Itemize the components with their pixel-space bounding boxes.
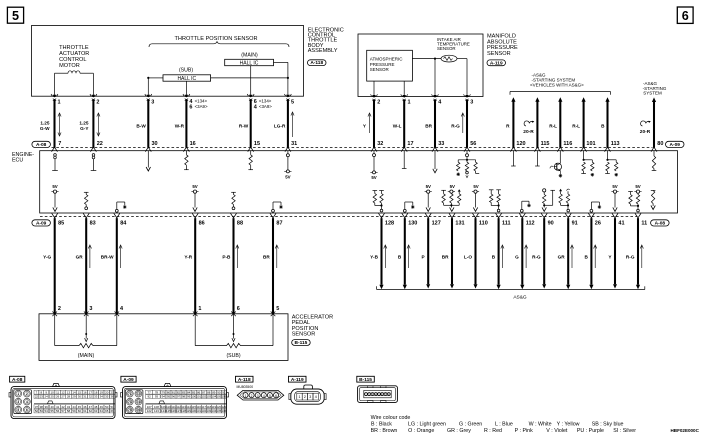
twisted pair arrow wire 1 — [58, 113, 61, 136]
svg-text:36: 36 — [111, 395, 115, 399]
ECU internal 5V source pin 110 — [472, 184, 479, 211]
svg-text:20-R: 20-R — [523, 129, 534, 135]
wire ECU pin 110 to AS&G — [474, 218, 478, 288]
wire AS&G 2 to ECU pin 115 — [535, 97, 539, 148]
svg-text:R : Red: R : Red — [484, 428, 502, 434]
shield arrow wire GR — [88, 245, 91, 268]
ECU internal resistor pin 88 — [231, 192, 236, 209]
svg-text:SENSOR: SENSOR — [292, 332, 316, 338]
wire main hall ic right to pin 5 — [274, 62, 288, 96]
ECU internal wire pin 33 arrow — [433, 151, 437, 173]
svg-text:15: 15 — [254, 141, 260, 147]
ECU bottom pin number 110 (A-08) — [479, 220, 488, 226]
pin mark throttle body pin 2 — [90, 94, 97, 101]
svg-text:6: 6 — [189, 105, 192, 111]
terminal mark at A-08 row wire 1 — [52, 147, 58, 152]
wire colour label R-L second — [572, 123, 580, 128]
pin mark MAP sensor pin 2 — [371, 94, 378, 101]
ECU internal resistor pair pin 113 — [605, 151, 618, 177]
connector boundary dashed line A-08/A-09 top — [52, 146, 653, 148]
wire ECU pin 128 to AS&G — [379, 218, 383, 289]
svg-text:HALL IC: HALL IC — [240, 60, 259, 66]
bracket vehicles with AS&G — [510, 92, 611, 95]
ECU bottom pin number 90 (A-08) — [548, 220, 554, 226]
terminal mark MAP wire 3 — [432, 147, 438, 152]
svg-text:Y-B: Y-B — [370, 255, 378, 260]
ECU internal wire pin 30 arrow — [146, 151, 150, 171]
svg-text:SB : Sky blue: SB : Sky blue — [592, 421, 624, 427]
terminal mark AS&G wire 2 — [534, 147, 540, 152]
connector A-118 pinout drawing — [237, 390, 284, 400]
svg-text:32: 32 — [377, 141, 383, 147]
svg-text:R-G: R-G — [626, 255, 635, 260]
pin number 2 — [96, 99, 99, 105]
label MANIFOLD ABSOLUTE PRESSURE SENSOR — [487, 34, 518, 57]
ECU internal resistor pin 16 — [184, 151, 189, 170]
svg-text:4: 4 — [263, 394, 265, 398]
svg-text:11: 11 — [641, 220, 647, 226]
svg-text:A-119: A-119 — [291, 377, 304, 383]
pin mark pedal sensor pin 3 — [84, 312, 89, 317]
wire colour label BR-W — [101, 255, 114, 260]
wire colour label G (pin 112) — [515, 245, 528, 268]
wire colour label P (pin 127) — [422, 255, 425, 260]
terminal mark bottom-left wire 1 — [52, 213, 58, 218]
svg-text:53: 53 — [40, 409, 44, 413]
connector label A-08 top — [32, 141, 51, 148]
svg-text:31: 31 — [291, 141, 297, 147]
svg-text:94: 94 — [162, 395, 166, 399]
svg-text:73: 73 — [128, 400, 132, 404]
pin mark MAP sensor pin 4 — [432, 94, 439, 101]
ECU pin number 56 (A-09) — [470, 141, 476, 147]
svg-text:<VEHICLES WITH AS&G>: <VEHICLES WITH AS&G> — [530, 83, 584, 88]
svg-text:71: 71 — [128, 392, 132, 396]
ECU driver symbol pin 22 — [91, 154, 97, 171]
svg-text:35: 35 — [105, 395, 109, 399]
svg-text:B-W: B-W — [136, 123, 146, 128]
wire colour label Y-B (pin 128) — [370, 245, 387, 268]
svg-text:54: 54 — [45, 409, 49, 413]
ECU pin number 80 — [657, 141, 663, 147]
svg-text:136: 136 — [221, 409, 226, 413]
svg-text:5V: 5V — [52, 184, 57, 189]
svg-text:Y : Yellow: Y : Yellow — [557, 421, 580, 427]
wire colour label Y (pin 41) — [608, 255, 612, 260]
label AS&G STARTING SYSTEM right — [643, 81, 667, 96]
svg-text:O : Orange: O : Orange — [408, 428, 434, 434]
svg-text:6: 6 — [682, 9, 689, 23]
svg-text:BR: BR — [263, 255, 270, 260]
label AS&G STARTING SYSTEM VEHICLES WITH AS&G — [530, 72, 584, 87]
ECU internal 5V supply pin 31 — [284, 151, 291, 180]
svg-text:90: 90 — [548, 220, 554, 226]
wire sub hall ic bottom to pin 4 — [185, 81, 187, 96]
label ELECTRONIC CONTROL THROTTLE BODY ASSEMBLY — [308, 28, 344, 54]
ECU bottom pin number 87 (A-09) — [276, 220, 282, 226]
svg-text:1: 1 — [17, 392, 19, 396]
svg-text:G: G — [515, 255, 519, 260]
svg-text:(SUB): (SUB) — [226, 353, 240, 359]
ECU internal resistor pin 15 — [248, 151, 253, 170]
svg-text:V : Violet: V : Violet — [546, 428, 568, 434]
svg-text:R-L: R-L — [549, 123, 557, 128]
terminal mark bottom-right wire 9 — [565, 213, 571, 218]
svg-text:116: 116 — [563, 141, 572, 147]
ECU internal corner pin 112 — [520, 201, 530, 212]
accelerator pedal position sensor box B-115 — [39, 314, 288, 361]
svg-text:BR : Brown: BR : Brown — [371, 428, 398, 434]
connector label A-118 drawing — [236, 376, 254, 389]
svg-text:65: 65 — [105, 409, 109, 413]
svg-text:24: 24 — [45, 395, 49, 399]
svg-text:5: 5 — [17, 408, 19, 412]
svg-text:5: 5 — [269, 394, 271, 398]
svg-text:(SUB): (SUB) — [179, 68, 193, 74]
svg-text:2: 2 — [26, 392, 28, 396]
svg-text:R-W: R-W — [239, 123, 249, 128]
terminal mark bottom-right wire 4 — [449, 213, 455, 218]
svg-text:A-118: A-118 — [238, 377, 251, 383]
svg-text:1: 1 — [299, 395, 301, 399]
label THROTTLE ACTUATOR CONTROL MOTOR — [59, 45, 89, 69]
svg-text:41: 41 — [618, 220, 624, 226]
svg-text:P-B: P-B — [222, 255, 231, 260]
ECU internal 5V source pin 86 — [191, 184, 198, 211]
wire colour label L-O (pin 110) — [464, 255, 472, 260]
terminal mark bottom-right wire 8 — [541, 213, 547, 218]
ECU internal resistor pair pin 91 — [559, 189, 570, 212]
svg-text:LG : Light green: LG : Light green — [408, 421, 446, 427]
svg-text:99: 99 — [187, 395, 191, 399]
wire colour label B (pin 26) — [585, 245, 597, 268]
wire colour label W-R — [175, 123, 185, 128]
svg-text:BR: BR — [425, 123, 432, 128]
shield arrow wire Y — [368, 113, 371, 133]
wire ECU to pedal sensor pin 4 — [116, 218, 118, 314]
label THROTTLE POSITION SENSOR — [175, 36, 258, 42]
svg-text:127: 127 — [432, 220, 441, 226]
svg-text:93: 93 — [155, 395, 159, 399]
ECU internal transistor pin 116 — [550, 151, 562, 178]
ECU internal resistor pair pin 128 — [373, 191, 384, 212]
svg-text:60: 60 — [78, 409, 82, 413]
svg-text:G-Y: G-Y — [80, 126, 89, 131]
ECU internal corner pin 26 — [590, 202, 601, 212]
wire main hall ic bottom to pin 6 — [250, 66, 252, 97]
svg-text:5: 5 — [12, 9, 19, 23]
wire colour label P-B — [222, 255, 231, 260]
svg-text:5: 5 — [291, 99, 294, 105]
wire colour label B — [601, 123, 605, 128]
svg-text:85: 85 — [58, 220, 64, 226]
ECU internal 5V source pin 127 — [425, 184, 432, 211]
svg-text:57: 57 — [61, 409, 65, 413]
svg-text:5V: 5V — [473, 184, 478, 189]
label (MAIN) — [78, 353, 95, 359]
svg-text:26: 26 — [595, 220, 601, 226]
svg-text:31: 31 — [83, 395, 87, 399]
wire thermistor to pin 3 — [457, 59, 467, 97]
inline connector 20-R first — [523, 121, 534, 135]
drawing code — [671, 428, 700, 434]
svg-text:106: 106 — [221, 395, 226, 399]
svg-text:112: 112 — [526, 220, 535, 226]
svg-text:B-115: B-115 — [359, 377, 372, 383]
svg-text:THROTTLE POSITION SENSOR: THROTTLE POSITION SENSOR — [175, 36, 258, 42]
wire ECU pin 111 to AS&G — [497, 218, 501, 289]
svg-text:1: 1 — [245, 394, 247, 398]
svg-text:A-119: A-119 — [490, 60, 503, 66]
svg-text:G-W: G-W — [40, 126, 50, 131]
svg-text:29: 29 — [72, 395, 76, 399]
pedal pin number 3 — [89, 306, 92, 312]
terminal mark MAP wire 1 — [371, 147, 377, 152]
terminal mark bottom-right wire 1 — [379, 213, 385, 218]
terminal mark bottom-right wire 11 — [612, 213, 618, 218]
svg-text:98: 98 — [182, 395, 186, 399]
wire colour label R-L first — [549, 123, 557, 128]
wire colour label R-G (pin 90) — [532, 255, 541, 260]
svg-text:5V: 5V — [635, 184, 640, 189]
wire throttle body pin 4 to ECU — [185, 99, 187, 147]
terminal mark AS&G wire 3 — [557, 147, 563, 152]
svg-text:56: 56 — [470, 141, 476, 147]
svg-text:115: 115 — [541, 141, 550, 147]
ECU internal 5V source pin 41 — [611, 184, 618, 211]
wire ECU pin 11 to AS&G — [636, 218, 640, 289]
ECU pin number 31 (A-08) — [291, 141, 297, 147]
wire AS&G 1 to ECU pin 120 — [511, 97, 515, 148]
wire colour label B-W — [136, 123, 146, 128]
ECU internal wire pin 115 T end — [535, 151, 540, 166]
pedal pin number 1 — [198, 306, 201, 312]
svg-text:30: 30 — [78, 395, 82, 399]
wire colour label GR (pin 91) — [558, 245, 574, 268]
connector label A-119 drawing — [289, 376, 307, 383]
ECU internal corner pin 84 — [115, 202, 126, 212]
svg-text:W : White: W : White — [529, 421, 552, 427]
terminal mark MAP wire 2 — [401, 147, 407, 152]
pin number 2 MAP — [377, 100, 380, 106]
pin number 1 MAP — [408, 100, 411, 106]
svg-text:32: 32 — [89, 395, 93, 399]
ECU bottom pin number 130 (A-08) — [408, 220, 417, 226]
svg-text:2: 2 — [251, 394, 253, 398]
label (SUB) — [226, 353, 240, 359]
svg-text:3: 3 — [151, 99, 154, 105]
svg-text:88: 88 — [237, 220, 243, 226]
pin mark pedal sensor pin 1 — [193, 312, 198, 317]
svg-text:2: 2 — [96, 99, 99, 105]
pin mark MAP sensor pin 3 — [464, 94, 471, 101]
svg-text:W-R: W-R — [175, 123, 185, 128]
ECU pin number 101 — [586, 141, 595, 147]
svg-text:33: 33 — [438, 141, 444, 147]
shield arrow wire BR-W — [119, 245, 122, 268]
connector B-115 pinout drawing — [358, 386, 398, 403]
connector label A-09 top right — [666, 141, 685, 148]
pin mark pedal sensor pin 6 — [231, 312, 236, 317]
pin number 4 MAP — [438, 100, 442, 106]
shield arrow wire BR — [275, 245, 278, 268]
ECU internal corner pin 87 — [272, 202, 283, 212]
svg-text:3: 3 — [257, 394, 259, 398]
ECU driver symbol pin 7 — [52, 154, 58, 171]
label ACCELERATOR PEDAL POSITION SENSOR — [292, 314, 333, 337]
svg-text:62: 62 — [89, 409, 93, 413]
wire MAP sensor pin 1 to ECU — [403, 100, 405, 148]
wire ECU to pedal sensor pin 5 — [272, 218, 274, 314]
thermistor intake air temperature sensor — [441, 55, 457, 62]
ECU internal resistor pin 83 — [84, 192, 89, 209]
ECU bottom pin number 91 (A-08) — [572, 220, 578, 226]
wire colour label LG-R — [274, 123, 286, 128]
svg-text:<3A9>: <3A9> — [195, 104, 208, 109]
connector label A-09 bottom left — [32, 220, 51, 227]
svg-text:5V: 5V — [285, 175, 290, 180]
connector label A-08 bottom right — [651, 220, 670, 227]
wire ECU to pedal sensor pin 2 — [54, 218, 56, 314]
svg-text:LG-R: LG-R — [274, 123, 286, 128]
ECU internal resistor right of pin 11 — [651, 191, 656, 210]
shield arrow wire P-B — [236, 245, 239, 268]
connector A-119 pinout drawing — [289, 385, 326, 404]
pin number 1 — [58, 99, 61, 105]
bracket AS&G bottom — [377, 286, 645, 289]
ECU internal corner pin 130 — [403, 202, 414, 212]
svg-text:B-115: B-115 — [295, 340, 308, 346]
svg-text:75: 75 — [128, 408, 132, 412]
ECU pin number 116 — [563, 141, 572, 147]
wire colour label W-L — [393, 123, 402, 128]
terminal mark AS&G wire 5 — [605, 147, 611, 152]
pin mark throttle body pin 1 — [51, 94, 58, 101]
svg-text:87: 87 — [276, 220, 282, 226]
svg-text:W-L: W-L — [393, 123, 402, 128]
terminal mark bottom-right wire 6 — [496, 213, 502, 218]
svg-text:52: 52 — [35, 409, 39, 413]
sheet number box 5 — [7, 7, 23, 23]
svg-text:L : Blue: L : Blue — [495, 421, 513, 427]
terminal mark bottom-left wire 2 — [83, 213, 89, 218]
wire colour code legend — [371, 415, 637, 434]
svg-text:113: 113 — [611, 141, 620, 147]
svg-text:7: 7 — [58, 141, 61, 147]
terminal mark bottom-left wire 5 — [231, 213, 237, 218]
ECU pin number 15 (A-08) — [254, 141, 260, 147]
svg-text:R-L: R-L — [572, 123, 580, 128]
svg-text:17: 17 — [407, 141, 413, 147]
svg-text:A-118: A-118 — [310, 60, 323, 66]
twisted pair arrow wire 2 — [97, 113, 100, 136]
svg-text:1: 1 — [58, 99, 61, 105]
pin mark throttle body pin 3 — [145, 94, 152, 101]
svg-text:AS&G: AS&G — [513, 295, 527, 301]
svg-text:66: 66 — [111, 409, 115, 413]
svg-text:34: 34 — [100, 395, 104, 399]
hall IC (MAIN) box — [225, 59, 274, 66]
pin mark throttle body pin 5 — [285, 94, 292, 101]
svg-text:76: 76 — [137, 408, 141, 412]
pin mark MAP sensor pin 1 — [401, 94, 408, 101]
svg-text:74: 74 — [137, 400, 141, 404]
svg-text:MOTOR: MOTOR — [59, 63, 80, 69]
svg-text:MU803500: MU803500 — [237, 385, 254, 389]
bracket throttle position sensor — [149, 42, 289, 47]
wire colour label R — [506, 123, 510, 128]
wire sub hall ic left to pin 3 — [147, 77, 163, 96]
ECU pin number 7 (A-08) — [58, 141, 61, 147]
wire ECU pin 130 to AS&G — [403, 218, 407, 289]
ECU pin number 17 (A-09) — [407, 141, 413, 147]
connector A-08 pinout drawing — [9, 383, 117, 418]
wire ECU to pedal sensor pin 1 — [194, 218, 196, 314]
svg-text:5: 5 — [276, 306, 279, 312]
svg-text:A-08: A-08 — [12, 377, 23, 383]
wire AS&G 3 to ECU pin 116 — [558, 97, 562, 148]
terminal mark at A-08 row wire 2 — [90, 147, 96, 152]
pin number 3 MAP — [470, 100, 473, 106]
wire colour label R-W — [239, 123, 249, 128]
wire throttle body pin 3 to ECU — [147, 99, 149, 147]
svg-text:5V: 5V — [426, 184, 431, 189]
svg-text:A-08: A-08 — [36, 142, 47, 148]
ECU bottom pin number 86 (A-09) — [199, 220, 205, 226]
wire colour label BR — [425, 123, 432, 128]
wire ECU pin 112 to AS&G — [520, 218, 524, 289]
svg-text:2: 2 — [304, 395, 306, 399]
svg-text:30: 30 — [152, 141, 158, 147]
svg-text:ECU: ECU — [12, 158, 23, 164]
wire ECU pin 90 to AS&G — [542, 218, 546, 288]
terminal mark bottom-right wire 5 — [473, 213, 479, 218]
atmospheric pressure sensor box — [367, 50, 413, 81]
terminal mark bottom-right wire 2 — [402, 213, 408, 218]
wire node to pin 4 — [434, 59, 436, 97]
svg-text:5V: 5V — [192, 184, 197, 189]
svg-text:A-08: A-08 — [655, 221, 666, 227]
terminal mark AS&G right — [651, 147, 657, 152]
ECU pin number 115 — [541, 141, 550, 147]
svg-text:6: 6 — [237, 306, 240, 312]
ECU pin number 120 — [516, 141, 525, 147]
svg-text:27: 27 — [61, 395, 65, 399]
svg-text:110: 110 — [479, 220, 488, 226]
svg-text:128: 128 — [385, 220, 394, 226]
svg-text:28: 28 — [67, 395, 71, 399]
svg-text:A-09: A-09 — [670, 142, 681, 148]
svg-text:BR-W: BR-W — [101, 255, 114, 260]
wire AS&G right to ECU pin 80 — [652, 97, 656, 147]
terminal mark bottom-right wire 10 — [588, 213, 594, 218]
svg-text:56: 56 — [56, 409, 60, 413]
svg-text:3: 3 — [89, 306, 92, 312]
svg-text:1: 1 — [198, 306, 201, 312]
ECU bottom pin number 83 (A-09) — [90, 220, 96, 226]
svg-text:ASSEMBLY: ASSEMBLY — [308, 48, 338, 54]
terminal mark AS&G wire 4 — [581, 147, 587, 152]
svg-text:R-G: R-G — [532, 255, 541, 260]
svg-text:1.25: 1.25 — [79, 120, 89, 125]
svg-text:95: 95 — [167, 395, 171, 399]
svg-text:SENSOR: SENSOR — [487, 51, 511, 57]
svg-text:3: 3 — [17, 400, 19, 404]
svg-text:96: 96 — [172, 395, 176, 399]
inline connector 20-R second — [640, 121, 651, 135]
label ENGINE-ECU — [12, 152, 34, 163]
svg-text:SENSOR: SENSOR — [437, 46, 456, 51]
